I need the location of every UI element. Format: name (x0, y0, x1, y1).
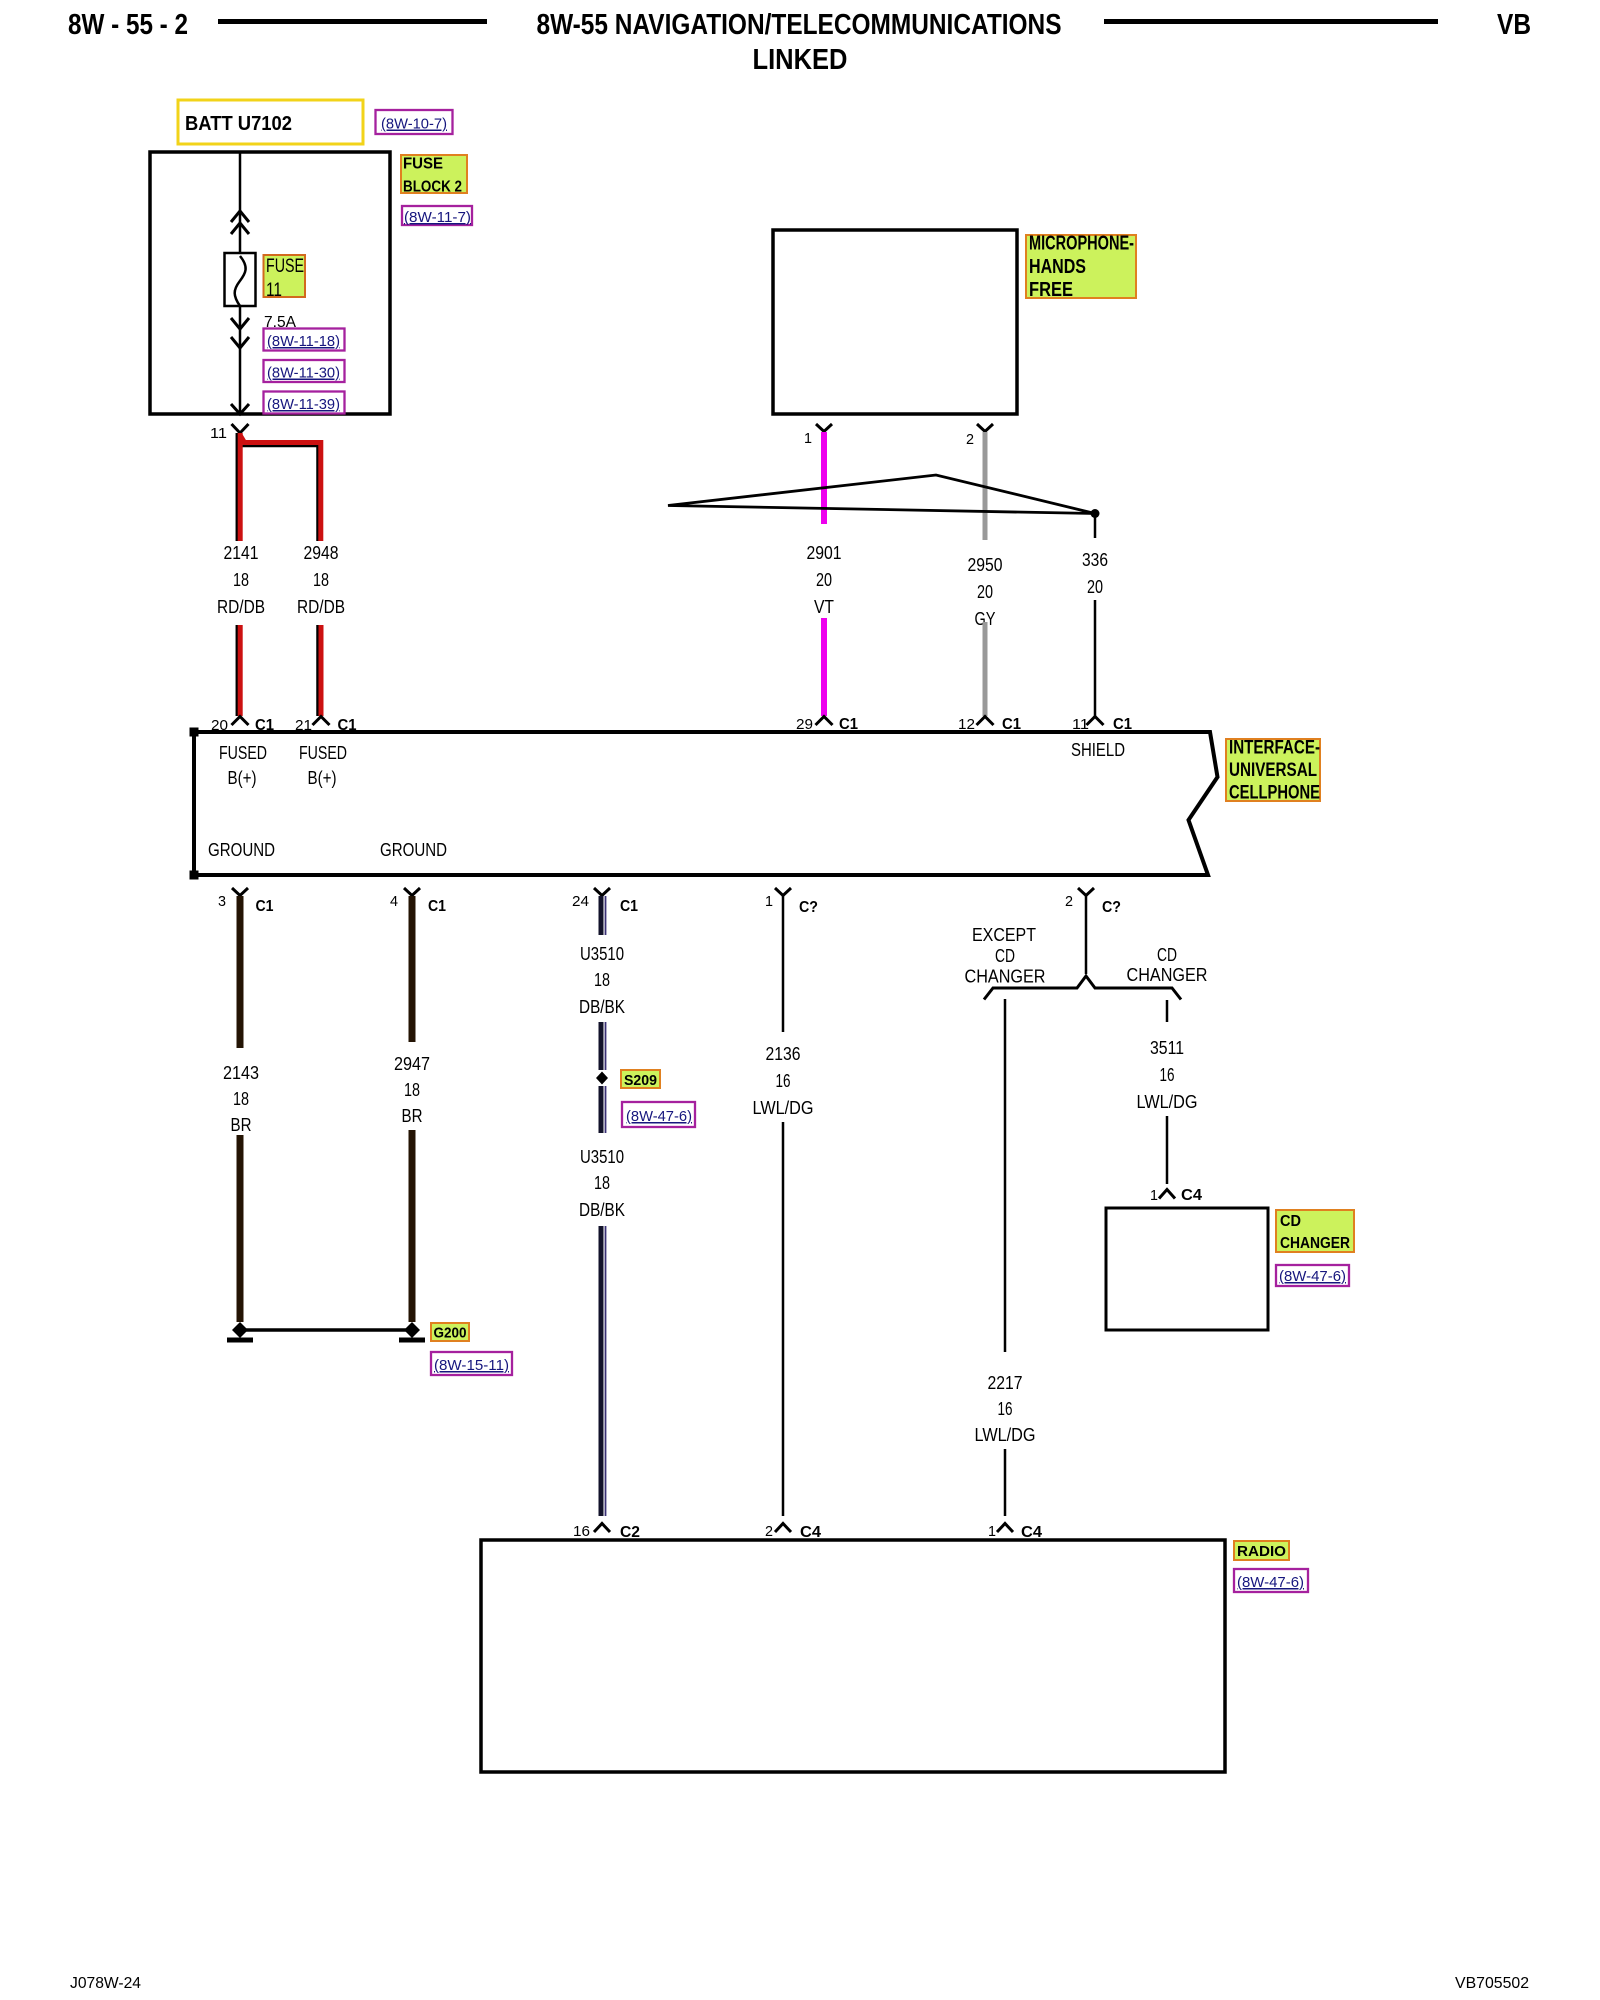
svg-text:LWL/DG: LWL/DG (753, 1098, 814, 1118)
connector pin 29 C1 (796, 716, 858, 733)
svg-text:(8W-47-6): (8W-47-6) (1279, 1268, 1346, 1285)
svg-text:INTERFACE-: INTERFACE- (1229, 738, 1320, 759)
label wire 2950 20 GY (968, 555, 1003, 629)
wire 2143 BR upper (237, 896, 244, 1048)
svg-text:8W-55 NAVIGATION/TELECOMMUNICA: 8W-55 NAVIGATION/TELECOMMUNICATIONS (537, 9, 1062, 41)
wire 2948 lower segment (318, 625, 322, 716)
wire 2136 lower (782, 1122, 785, 1516)
svg-text:2901: 2901 (807, 543, 842, 563)
connector pin 21 C1 (295, 717, 357, 735)
connector pin 11 C1 (1072, 716, 1132, 733)
connector pin 24 C1 (572, 888, 638, 915)
wire 3511 lower (1166, 1116, 1169, 1184)
link (8W-11-7) (402, 206, 472, 226)
svg-text:FUSED: FUSED (219, 743, 267, 763)
svg-text:20: 20 (816, 570, 832, 590)
label EXCEPT CD CHANGER (965, 925, 1046, 987)
svg-text:BATT U7102: BATT U7102 (185, 113, 292, 135)
svg-text:18: 18 (233, 1089, 249, 1109)
wire 2217 lower (1004, 1449, 1007, 1516)
svg-text:16: 16 (573, 1523, 590, 1540)
wire 2950 GY lower (983, 622, 988, 716)
label wire 336 20 (1082, 550, 1108, 597)
svg-text:G200: G200 (434, 1325, 467, 1342)
svg-text:(8W-10-7): (8W-10-7) (381, 116, 447, 133)
svg-text:(8W-47-6): (8W-47-6) (626, 1108, 692, 1125)
label FUSED B(+) pin20 (219, 743, 267, 788)
chevrons down (231, 318, 249, 348)
ground bus wire (246, 1328, 406, 1332)
shield triangle (668, 475, 1095, 514)
svg-text:2: 2 (765, 1523, 773, 1540)
label wire U3510 18 DB/BK lower (579, 1147, 625, 1220)
header rule left (218, 19, 487, 24)
label wire 2947 18 BR (394, 1054, 430, 1126)
connector pin 4 C1 (390, 888, 446, 915)
wire pin2 C? stub (1085, 896, 1088, 974)
svg-text:18: 18 (594, 970, 610, 990)
svg-text:1: 1 (988, 1523, 996, 1540)
svg-text:(8W-11-18): (8W-11-18) (267, 333, 340, 350)
svg-text:B(+): B(+) (308, 768, 337, 788)
ground junction dot left (232, 1322, 248, 1338)
option brace (984, 976, 1181, 1000)
svg-text:C1: C1 (620, 898, 638, 915)
svg-text:16: 16 (776, 1071, 791, 1091)
svg-text:LINKED: LINKED (753, 44, 848, 76)
svg-text:C1: C1 (256, 898, 274, 915)
svg-text:2: 2 (1065, 893, 1073, 910)
svg-text:RD/DB: RD/DB (217, 597, 265, 617)
svg-text:8W - 55 - 2: 8W - 55 - 2 (68, 9, 188, 41)
svg-text:(8W-11-39): (8W-11-39) (267, 396, 340, 413)
node marker bottom-left (190, 871, 199, 880)
wire 2136 upper (782, 896, 785, 1032)
svg-text:1: 1 (1150, 1187, 1158, 1204)
label wire 2141 18 RD/DB (217, 543, 265, 617)
link (8W-15-11) (431, 1352, 512, 1375)
svg-text:24: 24 (572, 893, 589, 910)
cd changer box (1106, 1208, 1268, 1330)
label wire 2136 16 LWL/DG (753, 1044, 814, 1118)
svg-text:RADIO: RADIO (1237, 1543, 1286, 1560)
svg-text:336: 336 (1082, 550, 1108, 570)
svg-text:B(+): B(+) (228, 768, 257, 788)
svg-text:18: 18 (233, 570, 249, 590)
svg-text:DB/BK: DB/BK (579, 1200, 625, 1220)
arrow at fuse block exit (231, 404, 249, 414)
wire 336 shield drain upper (1094, 514, 1097, 538)
wire 2143 BR lower (237, 1135, 244, 1322)
mic pin 1 (804, 424, 832, 447)
wire 2901 VT upper (821, 432, 827, 524)
ground junction dot right (404, 1322, 420, 1338)
label CD CHANGER (1276, 1210, 1354, 1252)
wire fuse block internal (239, 152, 242, 414)
svg-text:FREE: FREE (1029, 279, 1073, 301)
link (8W-11-30) (264, 360, 345, 382)
link (8W-11-18) (264, 329, 345, 351)
fuse block 2 outline (150, 152, 390, 414)
label S209 (621, 1070, 660, 1089)
svg-text:C?: C? (799, 899, 818, 916)
svg-text:11: 11 (210, 425, 227, 442)
radio box (481, 1540, 1225, 1772)
shield junction dot (1091, 509, 1100, 518)
svg-text:CELLPHONE: CELLPHONE (1229, 783, 1320, 804)
svg-text:VB705502: VB705502 (1455, 1975, 1529, 1992)
label wire 2901 20 VT (807, 543, 842, 617)
connector pin 1 C4 cd changer (1150, 1187, 1202, 1204)
link (8W-47-6) cd changer (1276, 1265, 1349, 1286)
connector pin 2 C4 radio (765, 1523, 821, 1541)
svg-text:18: 18 (404, 1080, 420, 1100)
svg-text:VB: VB (1497, 9, 1531, 41)
svg-text:CHANGER: CHANGER (965, 967, 1046, 987)
svg-text:18: 18 (313, 570, 329, 590)
label FUSE 11 (264, 255, 306, 301)
label wire 3511 16 LWL/DG (1137, 1038, 1198, 1112)
svg-text:2947: 2947 (394, 1054, 430, 1074)
connector pin 1 C? (765, 888, 818, 916)
link (8W-47-6) splice (622, 1102, 695, 1127)
svg-text:20: 20 (977, 582, 993, 602)
label FUSE BLOCK 2 (401, 155, 467, 196)
wire U3510 DB/BK seg4 (601, 1226, 606, 1516)
svg-text:2217: 2217 (988, 1373, 1023, 1393)
microphone hands-free box (773, 230, 1017, 414)
svg-text:20: 20 (1087, 577, 1103, 597)
pin 11 (210, 424, 249, 442)
svg-text:(8W-11-30): (8W-11-30) (267, 365, 340, 382)
svg-text:RD/DB: RD/DB (297, 597, 345, 617)
link (8W-10-7) (376, 110, 453, 134)
svg-text:FUSE: FUSE (266, 256, 304, 277)
svg-text:C4: C4 (1181, 1187, 1202, 1204)
wire 3511 upper (1166, 1000, 1169, 1022)
label wire 2217 16 LWL/DG (975, 1373, 1036, 1445)
label wire 2143 18 BR (223, 1063, 259, 1135)
svg-text:CD: CD (1280, 1213, 1301, 1230)
link (8W-47-6) radio (1234, 1569, 1308, 1592)
connector pin 1 C4 radio (988, 1523, 1042, 1541)
wire 2947 BR upper (409, 896, 416, 1042)
svg-text:2: 2 (966, 431, 974, 448)
svg-text:(8W-47-6): (8W-47-6) (1237, 1574, 1304, 1591)
svg-text:CHANGER: CHANGER (1280, 1235, 1350, 1252)
svg-text:HANDS: HANDS (1029, 256, 1086, 278)
wire 2141 lower segment (237, 625, 240, 716)
svg-text:FUSED: FUSED (299, 743, 347, 763)
svg-text:EXCEPT: EXCEPT (972, 925, 1036, 945)
svg-text:11: 11 (266, 280, 282, 301)
svg-text:3: 3 (218, 893, 226, 910)
label wire U3510 18 DB/BK upper (579, 944, 625, 1017)
label INTERFACE-UNIVERSAL CELLPHONE (1226, 738, 1320, 804)
connector pin 3 C1 (218, 888, 274, 915)
connector pin 2 C? (1065, 888, 1121, 916)
label RADIO (1234, 1541, 1289, 1560)
battery feed box BATT U7102 (178, 100, 363, 144)
wire 2217 upper (1004, 999, 1007, 1352)
svg-text:1: 1 (765, 893, 773, 910)
svg-text:LWL/DG: LWL/DG (1137, 1092, 1198, 1112)
link (8W-11-39) (264, 392, 345, 414)
svg-text:2950: 2950 (968, 555, 1003, 575)
svg-text:BLOCK 2: BLOCK 2 (403, 179, 462, 196)
svg-text:4: 4 (390, 893, 398, 910)
svg-text:(8W-11-7): (8W-11-7) (404, 209, 471, 226)
svg-text:VT: VT (814, 597, 834, 617)
svg-text:U3510: U3510 (580, 944, 624, 964)
svg-text:GROUND: GROUND (208, 840, 275, 860)
svg-text:2136: 2136 (766, 1044, 801, 1064)
wire 2141 RD/DB upper with branch (237, 433, 321, 541)
svg-text:J078W-24: J078W-24 (70, 1975, 141, 1992)
svg-text:BR: BR (231, 1115, 252, 1135)
wire 2901 VT lower (821, 618, 827, 716)
ground symbol right (399, 1338, 425, 1343)
svg-text:C?: C? (1102, 899, 1121, 916)
interface-universal cellphone box (194, 732, 1218, 875)
svg-text:S209: S209 (624, 1072, 657, 1089)
label CD CHANGER option (1127, 945, 1208, 985)
label MICROPHONE-HANDS FREE (1026, 233, 1136, 302)
splice S209 (596, 1072, 608, 1085)
label FUSED B(+) pin21 (299, 743, 347, 788)
svg-text:16: 16 (998, 1399, 1013, 1419)
svg-text:FUSE: FUSE (403, 156, 443, 173)
wire U3510 DB/BK seg2 (601, 1022, 606, 1070)
svg-text:C1: C1 (428, 898, 446, 915)
svg-text:SHIELD: SHIELD (1071, 740, 1125, 760)
ground symbol left (227, 1338, 253, 1343)
svg-text:LWL/DG: LWL/DG (975, 1425, 1036, 1445)
svg-text:UNIVERSAL: UNIVERSAL (1229, 760, 1317, 781)
wire 2947 BR lower (409, 1130, 416, 1322)
svg-text:16: 16 (1160, 1065, 1175, 1085)
svg-text:18: 18 (594, 1173, 610, 1193)
wire U3510 DB/BK seg3 (601, 1086, 606, 1133)
chevrons up (231, 211, 249, 234)
svg-text:(8W-15-11): (8W-15-11) (434, 1357, 509, 1374)
wire U3510 DB/BK seg1 (601, 896, 606, 935)
svg-text:CHANGER: CHANGER (1127, 965, 1208, 985)
wire 2950 GY upper (983, 432, 988, 540)
connector pin 12 C1 (958, 716, 1021, 733)
label G200 (431, 1323, 469, 1342)
svg-text:BR: BR (402, 1106, 423, 1126)
node marker top-left (190, 728, 199, 737)
fuse F11 symbol (225, 253, 256, 306)
connector pin 20 C1 (211, 717, 274, 735)
mic pin 2 (966, 424, 993, 448)
svg-text:CD: CD (995, 946, 1015, 966)
wire 336 shield drain lower (1094, 600, 1097, 716)
header rule right (1104, 19, 1438, 24)
label wire 2948 18 RD/DB (297, 543, 345, 617)
svg-text:2141: 2141 (224, 543, 259, 563)
connector pin 16 C2 radio (573, 1523, 640, 1541)
svg-text:2948: 2948 (304, 543, 339, 563)
svg-text:GROUND: GROUND (380, 840, 447, 860)
svg-text:MICROPHONE-: MICROPHONE- (1029, 233, 1134, 255)
svg-text:2143: 2143 (223, 1063, 259, 1083)
svg-text:CD: CD (1157, 945, 1177, 965)
svg-text:U3510: U3510 (580, 1147, 624, 1167)
svg-text:1: 1 (804, 430, 812, 447)
svg-text:DB/BK: DB/BK (579, 997, 625, 1017)
svg-text:3511: 3511 (1150, 1038, 1184, 1058)
